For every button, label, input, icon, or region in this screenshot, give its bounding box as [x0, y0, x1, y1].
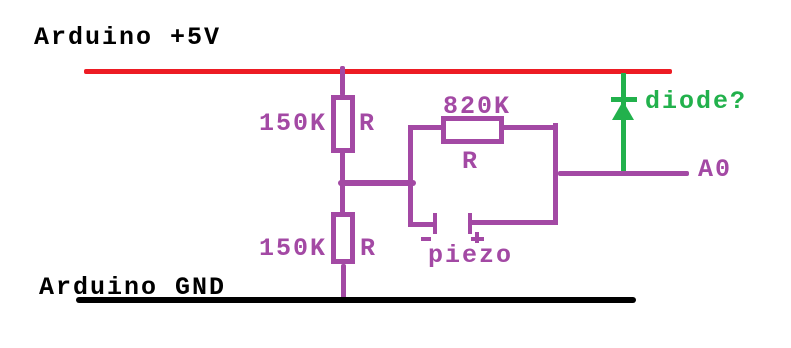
- piezo - plate: [433, 213, 437, 234]
- wire R1 bottom to node A: [340, 153, 345, 186]
- label Arduino GND: [39, 275, 226, 300]
- node A junction wire to loop: [338, 180, 416, 186]
- label piezo: [428, 243, 513, 268]
- label R (R1): [359, 111, 376, 136]
- loop bottom-right wire to piezo + plate: [470, 220, 558, 225]
- diode D1 triangle: [612, 101, 634, 120]
- resistor R3 body: [441, 116, 504, 144]
- GND rail (black wire): [76, 297, 636, 303]
- loop bottom-left wire to piezo - plate: [408, 222, 436, 227]
- diode D1 vertical lead: [621, 73, 626, 171]
- resistor R1 body: [331, 95, 355, 153]
- output wire to A0: [558, 171, 689, 176]
- +5V rail (red wire): [84, 69, 672, 74]
- piezo plus sign horizontal: [471, 237, 484, 241]
- piezo plus sign vertical: [475, 232, 479, 243]
- label 820K (R3): [443, 94, 511, 119]
- wire R2 bottom to GND rail: [341, 264, 346, 300]
- resistor R2 body: [331, 212, 355, 264]
- label diode?: [645, 89, 747, 114]
- wire node A down to R2 top: [340, 186, 345, 213]
- loop top-left wire: [408, 125, 444, 130]
- loop left vertical wire: [408, 125, 413, 227]
- label Arduino +5V: [34, 25, 221, 50]
- loop right vertical wire: [553, 123, 558, 225]
- label 150K (R1): [259, 111, 327, 136]
- label R (R2): [360, 236, 377, 261]
- label 150K (R2): [259, 236, 327, 261]
- piezo minus sign: [421, 237, 431, 241]
- label R (R3): [462, 149, 479, 174]
- diode D1 cathode bar: [611, 97, 637, 102]
- piezo + plate: [468, 213, 472, 234]
- wire rail to R1 top: [340, 66, 345, 96]
- label A0: [698, 157, 732, 182]
- loop top-right wire: [504, 125, 558, 130]
